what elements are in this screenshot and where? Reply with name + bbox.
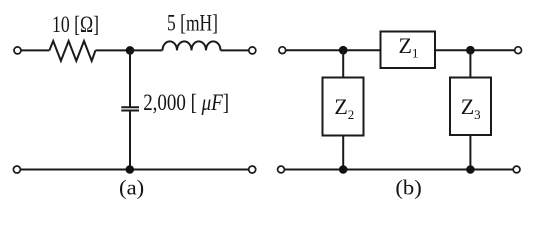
node junction a-bottom xyxy=(126,165,135,174)
wire bottom B xyxy=(285,169,514,171)
node junction b1-top xyxy=(339,46,348,55)
terminal B-top-left xyxy=(279,47,286,54)
node junction a-top xyxy=(126,46,135,55)
impedance Z1 box xyxy=(381,32,436,69)
capacitor C 2000 uF xyxy=(121,106,139,108)
wire capacitor to bottom xyxy=(129,111,131,169)
wire xyxy=(221,49,249,51)
terminal A-top-right xyxy=(249,47,256,54)
wire xyxy=(96,49,131,51)
wire Z2 bottom lead xyxy=(342,136,344,170)
wire xyxy=(286,49,381,51)
svg-text:2,000 [ μF]: 2,000 [ μF] xyxy=(143,89,229,115)
inductor L 5 mH xyxy=(163,41,221,50)
impedance Z3 box xyxy=(450,78,491,136)
node junction b2-top xyxy=(466,46,475,55)
svg-text:(a): (a) xyxy=(119,176,144,199)
wire xyxy=(435,49,515,51)
wire node to capacitor xyxy=(129,50,131,106)
resistor R 10 ohm xyxy=(49,41,95,61)
wire xyxy=(130,49,163,51)
terminal B-bottom-right xyxy=(513,166,520,173)
terminal B-bottom-left xyxy=(278,166,285,173)
node junction b2-bottom xyxy=(466,165,475,174)
svg-text:(b): (b) xyxy=(395,176,421,199)
terminal A-bottom-left xyxy=(13,166,20,173)
wire Z3 bottom lead xyxy=(469,135,471,170)
svg-text:10 [Ω]: 10 [Ω] xyxy=(52,11,99,37)
wire Z2 top lead xyxy=(342,50,344,77)
wire xyxy=(21,49,49,51)
terminal A-top-left xyxy=(14,47,21,54)
node junction b1-bottom xyxy=(339,165,348,174)
terminal B-top-right xyxy=(515,47,522,54)
impedance Z2 box xyxy=(323,78,364,136)
wire Z3 top lead xyxy=(469,50,471,77)
terminal A-bottom-right xyxy=(249,166,256,173)
wire bottom A xyxy=(20,169,248,171)
svg-text:5 [mH]: 5 [mH] xyxy=(167,11,218,36)
